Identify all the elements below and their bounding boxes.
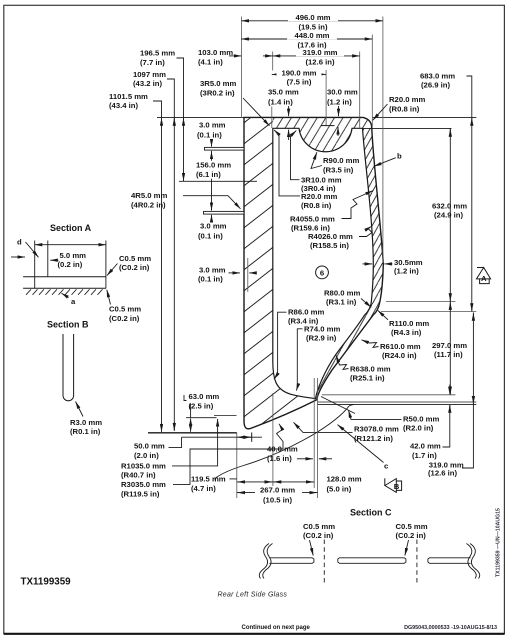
- glass band: left region hatched: [244, 117, 317, 428]
- dimension 267.0: [237, 485, 318, 504]
- svg-text:Continued on next page: Continued on next page: [242, 625, 311, 631]
- glass band: right+diagonal region hatched: [316, 128, 384, 400]
- svg-text:(0.1 in): (0.1 in): [197, 130, 222, 139]
- feature line y=181.3: [179, 180, 257, 182]
- dimension 30.5: [363, 258, 423, 276]
- feature double line y=401/403: [318, 402, 477, 404]
- leader R20.0 top-right corner: [373, 95, 426, 120]
- extension line x=241.4: [240, 17, 242, 118]
- label d: [11, 237, 39, 257]
- svg-text:(R121.2 in): (R121.2 in): [354, 434, 393, 443]
- svg-text:R20.0 mm: R20.0 mm: [389, 95, 425, 104]
- extension line x=314.2: [313, 378, 315, 488]
- svg-text:297.0 mm: 297.0 mm: [432, 341, 467, 350]
- svg-text:Rear Left Side Glass: Rear Left Side Glass: [218, 591, 288, 598]
- leader R3078.0: [294, 422, 400, 443]
- dimension 3.0 lower tab: [198, 215, 227, 240]
- dimension 683.0 bracket: [420, 71, 472, 311]
- svg-text:a: a: [71, 297, 76, 306]
- svg-text:(26.9 in): (26.9 in): [421, 81, 450, 90]
- svg-text:(R0.1 in): (R0.1 in): [70, 427, 101, 436]
- svg-text:(R119.5 in): (R119.5 in): [121, 489, 160, 498]
- dimension 35.0: [268, 87, 299, 140]
- top edge extension line left: [157, 116, 244, 118]
- svg-text:R86.0 mm: R86.0 mm: [288, 308, 324, 317]
- svg-text:C0.5 mm: C0.5 mm: [119, 254, 151, 263]
- chamfer C0.5 strip 2: [396, 522, 428, 556]
- svg-text:Section C: Section C: [350, 508, 392, 518]
- svg-text:(C0.2 in): (C0.2 in): [303, 531, 334, 540]
- svg-text:R3.0 mm: R3.0 mm: [70, 418, 102, 427]
- label c with leader: [321, 397, 389, 471]
- svg-text:d: d: [17, 237, 22, 246]
- Section C dashed line 1: [323, 540, 325, 584]
- svg-text:C0.5 mm: C0.5 mm: [396, 522, 428, 531]
- svg-text:(1.6 in): (1.6 in): [267, 454, 292, 463]
- leader R610.0 zigzag: [362, 340, 421, 360]
- dimension 156.0: [195, 151, 231, 211]
- svg-text:3.0 mm: 3.0 mm: [199, 120, 226, 129]
- svg-text:(19.5 in): (19.5 in): [298, 23, 327, 32]
- svg-text:R20.0 mm: R20.0 mm: [301, 192, 337, 201]
- leader R80.0: [324, 288, 371, 307]
- svg-text:(12.6 in): (12.6 in): [305, 58, 334, 67]
- svg-text:30.5mm: 30.5mm: [394, 258, 423, 267]
- svg-text:(R2.0 in): (R2.0 in): [403, 424, 434, 433]
- svg-text:c: c: [384, 462, 389, 471]
- svg-text:(5.0 in): (5.0 in): [327, 484, 352, 493]
- leader R110.0: [378, 310, 430, 337]
- svg-text:190.0 mm: 190.0 mm: [281, 68, 316, 77]
- tab lower-left: [204, 211, 245, 214]
- label b: [374, 152, 402, 167]
- dimension 40.0: [267, 444, 332, 463]
- dimension 496.0: [241, 13, 383, 32]
- svg-text:496.0 mm: 496.0 mm: [295, 13, 330, 22]
- dimension 5.0: [50, 251, 86, 269]
- dimension 42.0 bracket: [410, 385, 450, 460]
- extension line x=382.9: [382, 17, 384, 264]
- svg-text:35.0 mm: 35.0 mm: [268, 87, 299, 96]
- svg-text:(1.2 in): (1.2 in): [394, 267, 419, 276]
- ledge extension line right: [363, 127, 452, 129]
- svg-text:(1.2 in): (1.2 in): [327, 97, 352, 106]
- leader R3035.0 zigzag: [121, 424, 283, 499]
- svg-text:4R5.0 mm: 4R5.0 mm: [131, 191, 167, 200]
- svg-text:(R25.1 in): (R25.1 in): [350, 374, 385, 383]
- dimension 1101.5 bent leader: [109, 92, 162, 432]
- leader 3R5.0: [200, 79, 270, 126]
- svg-text:R110.0 mm: R110.0 mm: [389, 319, 429, 328]
- chamfer C0.5 upper: [107, 254, 151, 276]
- svg-text:(0.2 in): (0.2 in): [58, 260, 83, 269]
- R50 corner curve: [347, 404, 354, 408]
- dimension 3.0 edge: [198, 265, 255, 283]
- label a: [62, 293, 77, 306]
- dimension 1097 bent leader: [133, 70, 174, 431]
- svg-text:b: b: [397, 152, 402, 161]
- svg-text:(1.4 in): (1.4 in): [268, 97, 293, 106]
- extension line x=372.3: [371, 35, 373, 128]
- Section B slot: [63, 334, 74, 401]
- short line y=415.5: [214, 415, 237, 417]
- svg-text:156.0 mm: 156.0 mm: [196, 161, 231, 170]
- dimension 119.5 / 128.0 line: [191, 474, 362, 493]
- footer heavy rule: [4, 633, 505, 635]
- svg-text:Section B: Section B: [47, 320, 89, 330]
- svg-text:(2.0 in): (2.0 in): [134, 451, 159, 460]
- dimension 103.0: [198, 48, 273, 67]
- leader 3R10.0: [291, 131, 342, 193]
- svg-text:B: B: [394, 482, 400, 491]
- leader R74.0: [296, 324, 340, 390]
- svg-text:(4.7 in): (4.7 in): [191, 484, 216, 493]
- svg-text:30.0 mm: 30.0 mm: [327, 87, 358, 96]
- leader R50.0: [349, 410, 440, 432]
- short line y=417.7: [186, 417, 217, 419]
- svg-text:R50.0 mm: R50.0 mm: [403, 414, 439, 423]
- svg-text:(24.9 in): (24.9 in): [434, 211, 463, 220]
- svg-text:3.0 mm: 3.0 mm: [199, 265, 226, 274]
- leader R3.0: [70, 402, 102, 437]
- svg-text:(43.2 in): (43.2 in): [133, 79, 162, 88]
- svg-text:C0.5 mm: C0.5 mm: [303, 522, 335, 531]
- svg-text:267.0 mm: 267.0 mm: [260, 485, 295, 494]
- leader R20.0 ledge: [274, 130, 337, 210]
- leader 4R5.0: [131, 191, 241, 210]
- extension line x=326.1: [325, 70, 327, 126]
- dimension 196.5 bent leader: [140, 49, 184, 182]
- chamfer C0.5 lower: [107, 290, 141, 323]
- svg-text:(C0.2 in): (C0.2 in): [396, 531, 427, 540]
- Section C break squiggle right: [467, 544, 480, 579]
- corner extension line y=311.5: [381, 311, 476, 313]
- balloon 6: [316, 266, 329, 279]
- leader R90.0 notch: [311, 152, 359, 174]
- svg-text:196.5 mm: 196.5 mm: [140, 49, 175, 58]
- svg-text:(R0.8 in): (R0.8 in): [301, 201, 332, 210]
- svg-text:448.0 mm: 448.0 mm: [294, 31, 329, 40]
- svg-text:50.0 mm: 50.0 mm: [134, 442, 165, 451]
- svg-text:319.0 mm: 319.0 mm: [302, 48, 337, 57]
- dimension 319.0: [273, 48, 360, 67]
- dimension 63.0: [184, 392, 219, 432]
- svg-text:R1035.0 mm: R1035.0 mm: [121, 461, 166, 470]
- Section C glass strip seg1: [269, 558, 314, 564]
- baseline y=432.6: [148, 432, 237, 434]
- corner extension line y=301.5: [386, 301, 456, 303]
- svg-text:(1.7 in): (1.7 in): [412, 451, 437, 460]
- svg-text:5.0 mm: 5.0 mm: [60, 251, 87, 260]
- svg-text:R3078.0 mm: R3078.0 mm: [354, 425, 399, 434]
- svg-text:(R158.5 in): (R158.5 in): [310, 241, 349, 250]
- dimension 448.0: [241, 31, 372, 50]
- svg-text:(7.5 in): (7.5 in): [287, 78, 312, 87]
- svg-text:A: A: [481, 274, 487, 283]
- line y=437.2 with 50.0 arrows: [182, 433, 263, 442]
- Section A frit hatch ticks: [26, 289, 103, 295]
- extension line x=359.7: [359, 52, 361, 128]
- svg-text:(R2.9 in): (R2.9 in): [306, 334, 337, 343]
- svg-text:(4R0.2 in): (4R0.2 in): [131, 201, 166, 210]
- svg-text:(11.7 in): (11.7 in): [434, 350, 463, 359]
- svg-text:(R4.3 in): (R4.3 in): [391, 328, 422, 337]
- R3078 arc: [215, 408, 347, 480]
- svg-text:683.0 mm: 683.0 mm: [420, 71, 455, 80]
- leader R638.0 zigzag: [336, 355, 391, 382]
- svg-text:(0.1 in): (0.1 in): [198, 231, 223, 240]
- dimension 3.0 upper tab: [197, 120, 226, 146]
- datum flag A: [477, 268, 491, 284]
- svg-text:TX1199359 —UN—10AUG15: TX1199359 —UN—10AUG15: [496, 508, 502, 577]
- Section C glass strip seg2: [338, 558, 406, 564]
- top edge extension line right: [372, 116, 476, 118]
- dimension 319.0 right bracket: [428, 313, 473, 478]
- svg-text:128.0 mm: 128.0 mm: [327, 475, 362, 484]
- svg-text:3.0 mm: 3.0 mm: [200, 221, 227, 230]
- svg-text:(7.7 in): (7.7 in): [140, 58, 165, 67]
- svg-text:1097 mm: 1097 mm: [133, 70, 166, 79]
- svg-text:R90.0 mm: R90.0 mm: [323, 156, 359, 165]
- svg-text:(R3.1 in): (R3.1 in): [326, 298, 357, 307]
- Section C break squiggle left: [259, 544, 272, 579]
- svg-text:42.0 mm: 42.0 mm: [410, 441, 441, 450]
- leader R4055.0 zigzag: [290, 191, 373, 233]
- svg-text:C0.5 mm: C0.5 mm: [109, 305, 141, 314]
- svg-text:632.0 mm: 632.0 mm: [432, 201, 467, 210]
- svg-text:R638.0 mm: R638.0 mm: [350, 364, 391, 373]
- svg-text:R3035.0 mm: R3035.0 mm: [121, 480, 166, 489]
- svg-text:R4026.0 mm: R4026.0 mm: [308, 232, 353, 241]
- svg-text:(R24.0 in): (R24.0 in): [382, 351, 417, 360]
- dimension 30.0: [321, 87, 358, 136]
- svg-text:(R0.8 in): (R0.8 in): [389, 105, 420, 114]
- svg-text:119.5 mm: 119.5 mm: [191, 474, 226, 483]
- svg-text:R74.0 mm: R74.0 mm: [304, 324, 340, 333]
- svg-text:(2.5 in): (2.5 in): [189, 401, 214, 410]
- extension line x=317.5: [317, 378, 319, 498]
- extension line x=272.9 bottom: [272, 393, 274, 488]
- svg-text:3R5.0 mm: 3R5.0 mm: [200, 79, 236, 88]
- svg-text:(0.1 in): (0.1 in): [198, 274, 223, 283]
- svg-text:Section A: Section A: [50, 223, 92, 233]
- svg-text:(R3.5 in): (R3.5 in): [323, 166, 354, 175]
- svg-text:(12.6 in): (12.6 in): [428, 468, 457, 477]
- svg-text:6: 6: [320, 268, 324, 277]
- glass inner band boundary: [273, 128, 374, 398]
- dimension 632.0: [432, 128, 467, 301]
- dimension 50.0 leader: [134, 437, 182, 460]
- glass band: top region hatched: [273, 117, 372, 151]
- svg-text:(6.1 in): (6.1 in): [196, 170, 221, 179]
- tab upper-left: [205, 147, 245, 150]
- svg-text:1101.5 mm: 1101.5 mm: [109, 92, 148, 101]
- svg-text:DG95043,0000533 -19-10AUG15-8/: DG95043,0000533 -19-10AUG15-8/13: [404, 625, 497, 631]
- glass outer outline: [244, 117, 383, 428]
- leader R1035.0: [121, 419, 218, 480]
- svg-text:R80.0 mm: R80.0 mm: [324, 288, 360, 297]
- svg-text:R4055.0 mm: R4055.0 mm: [290, 214, 335, 223]
- thin edge line left: [247, 258, 249, 292]
- Section A detail: [23, 241, 106, 289]
- svg-text:63.0 mm: 63.0 mm: [189, 392, 220, 401]
- Section C dashed line 2: [416, 540, 418, 584]
- extension line x=272.7: [272, 52, 274, 71]
- svg-text:R610.0 mm: R610.0 mm: [380, 342, 421, 351]
- svg-text:TX1199359: TX1199359: [21, 576, 72, 587]
- Section C glass strip seg3: [428, 558, 471, 564]
- svg-text:(4.1 in): (4.1 in): [198, 58, 223, 67]
- dimension 190.0: [272, 68, 326, 86]
- svg-text:(3R0.2 in): (3R0.2 in): [200, 89, 235, 98]
- dimension 297.0: [432, 302, 467, 395]
- leader R4026.0 zigzag: [308, 226, 372, 249]
- svg-text:(43.4 in): (43.4 in): [109, 101, 138, 110]
- svg-text:103.0 mm: 103.0 mm: [198, 48, 233, 57]
- leader R86.0: [274, 308, 324, 380]
- feature line y=391.5: [322, 394, 456, 396]
- svg-text:(10.5 in): (10.5 in): [263, 495, 292, 504]
- extension line x=236.8: [236, 433, 238, 498]
- svg-text:(C0.2 in): (C0.2 in): [119, 263, 150, 272]
- datum flag B: [385, 478, 402, 492]
- chamfer C0.5 strip 1: [303, 522, 335, 556]
- svg-text:(R40.7 in): (R40.7 in): [121, 471, 156, 480]
- svg-text:(C0.2 in): (C0.2 in): [109, 314, 140, 323]
